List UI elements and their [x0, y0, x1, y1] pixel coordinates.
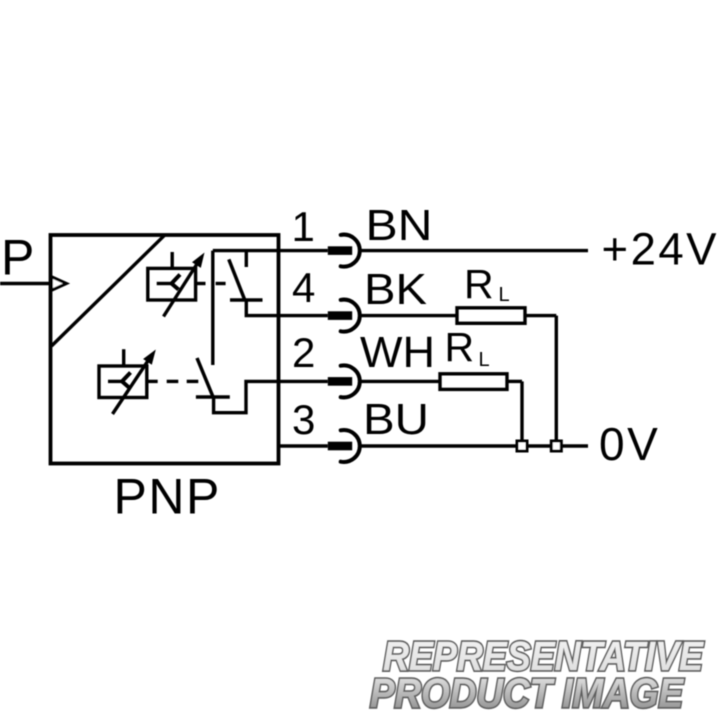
- wire S2 step to pin2: [214, 381, 328, 412]
- diagonal line: [52, 235, 166, 346]
- connector pin2 plug: [328, 377, 352, 386]
- connector pin4 socket arc: [341, 300, 360, 332]
- sensor B1 rectangle: [148, 268, 196, 300]
- resistor R_L 2: [440, 374, 507, 390]
- sensor box U1: [51, 235, 279, 464]
- svg-text:2: 2: [292, 329, 315, 376]
- svg-text:3: 3: [292, 396, 315, 443]
- sensor B1 midline: [157, 282, 172, 285]
- wire BK to resistor: [360, 314, 457, 317]
- sensor B2 chevron arrow: [122, 373, 131, 388]
- sensor B1 right stub: [196, 282, 206, 285]
- switch S1 fixed contact: [245, 251, 248, 267]
- sensor B1 adjust arrow shaft: [164, 260, 200, 317]
- connector pin2 socket arc: [341, 365, 360, 397]
- switch S2 lever: [197, 358, 214, 398]
- junction square J1: [517, 441, 527, 451]
- svg-text:BK: BK: [364, 266, 427, 314]
- wire P input: [0, 282, 51, 285]
- dashed link lower: [167, 380, 179, 383]
- connector pin1 plug: [328, 246, 352, 255]
- wire BU to 0V: [360, 444, 588, 447]
- sensor B1 top stub: [170, 252, 173, 268]
- svg-text:BN: BN: [366, 202, 433, 250]
- dashed link upper: [216, 282, 226, 285]
- dashed link lower 2: [187, 380, 199, 383]
- wire BN to +24V: [360, 249, 588, 252]
- wire S1 step to pin4: [246, 300, 327, 316]
- arrowhead P input: [52, 277, 67, 291]
- wire resistor2 out: [507, 380, 522, 383]
- watermark REPRESENTATIVE: [370, 633, 704, 716]
- svg-text:WH: WH: [360, 329, 435, 377]
- resistor R_L 1: [457, 308, 525, 324]
- junction square J2: [551, 441, 561, 451]
- svg-text:4: 4: [292, 264, 315, 311]
- wire vertical feed: [211, 251, 214, 365]
- sensor B1 chevron arrow: [172, 275, 181, 290]
- svg-text:L: L: [499, 284, 510, 306]
- switch S1 lever: [229, 259, 245, 300]
- svg-text:1: 1: [292, 203, 315, 250]
- svg-text:R: R: [445, 324, 475, 370]
- sensor B2 adjust arrow shaft: [113, 357, 151, 414]
- switch S1 contact bar: [230, 298, 263, 301]
- svg-text:P: P: [1, 230, 34, 286]
- connector pin3 plug: [328, 442, 352, 451]
- wire WH to resistor: [360, 380, 440, 383]
- svg-text:BU: BU: [363, 396, 429, 444]
- svg-text:L: L: [479, 349, 490, 371]
- sensor B1 adjust arrowhead: [192, 253, 205, 268]
- connector pin4 plug: [328, 311, 352, 320]
- connector pin3 socket arc: [341, 430, 360, 462]
- svg-text:0V: 0V: [599, 418, 660, 470]
- switch S1 rail to pin1: [213, 249, 328, 252]
- sensor B2 adjust arrowhead: [143, 350, 156, 365]
- sensor B2 right stub: [147, 380, 158, 383]
- connector pin1 socket arc: [341, 235, 360, 267]
- sensor B2 rectangle: [99, 366, 147, 398]
- sensor B2 top stub: [122, 349, 125, 366]
- wire resistor1 out: [525, 314, 556, 317]
- wire resistor1 drop: [555, 316, 558, 442]
- svg-text:R: R: [464, 261, 494, 307]
- sensor B2 midline: [108, 380, 122, 383]
- svg-text:PNP: PNP: [114, 469, 221, 525]
- svg-text:PRODUCT IMAGE: PRODUCT IMAGE: [370, 670, 684, 716]
- svg-text:+24V: +24V: [602, 224, 720, 275]
- switch S2 contact bar: [196, 395, 230, 398]
- wire pin3 stub: [279, 444, 328, 447]
- wire resistor2 drop: [520, 381, 523, 441]
